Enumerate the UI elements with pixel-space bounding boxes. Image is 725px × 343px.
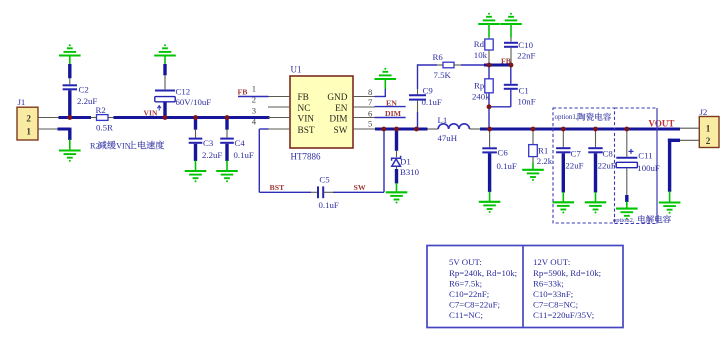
svg-text:5: 5 [368,119,372,129]
svg-text:VIN: VIN [298,114,315,124]
svg-text:DIM: DIM [329,114,347,124]
svg-text:U1: U1 [291,65,302,75]
wire J2 pin2 to ground [668,139,680,142]
ground under C8 [595,192,597,202]
svg-text:C11: C11 [638,150,652,160]
svg-text:0.1uF: 0.1uF [497,161,517,171]
svg-text:C8: C8 [603,148,614,158]
svg-text:1: 1 [26,127,31,137]
svg-text:0.1uF: 0.1uF [422,97,442,107]
dashed box option1 ceramic [553,108,615,223]
U1 pin 4 stub [268,128,290,130]
svg-text:DIM: DIM [385,109,402,118]
U1 pin 2 stub [268,106,290,108]
svg-text:0.5R: 0.5R [96,123,113,133]
svg-text:3: 3 [252,106,256,116]
svg-text:Rp: Rp [474,80,485,90]
ground under D1 [396,183,398,192]
capacitor C7 [562,129,564,147]
svg-text:C5: C5 [319,175,330,185]
ground under C7 [562,192,564,202]
capacitor C12 (electrolytic) [163,64,166,75]
J2 pin 1 stub [680,127,699,129]
svg-text:option1,: option1, [555,113,578,121]
svg-text:HT7886: HT7886 [291,152,321,162]
wire VIN bus [114,116,270,119]
capacitor C3 [194,118,197,130]
svg-text:R1: R1 [538,145,548,155]
ground under J2 [669,191,671,202]
svg-text:22uF: 22uF [565,161,583,171]
svg-text:option2,: option2, [613,217,635,224]
svg-text:2.2uF: 2.2uF [77,96,97,106]
junction C9-SW [414,127,419,132]
wire VIN bus left [59,116,92,119]
svg-text:22uF: 22uF [598,161,616,171]
svg-text:FB: FB [298,93,309,103]
ground under R1 [532,163,534,170]
inductor L1 [428,128,439,130]
junction C10-FB [509,63,514,68]
svg-text:FB: FB [238,87,248,96]
power symbol above C12 [154,48,176,55]
junction C4-VIN [225,115,230,120]
svg-text:BST: BST [270,183,286,192]
wire C5 to SW node [333,191,384,193]
J2 pin 2 stub [680,139,699,141]
junction R1-VOUT [531,127,536,132]
junction C8-VOUT [593,127,598,132]
junction C3-VIN [193,115,198,120]
svg-text:1: 1 [706,124,711,134]
U1 pin 7 stub [353,106,375,108]
connector J1 [17,107,38,140]
wire FB node [484,64,513,67]
svg-text:SW: SW [334,126,348,136]
svg-text:R6: R6 [433,52,444,62]
svg-text:0.1uF: 0.1uF [319,200,339,210]
wire J1 pin1 to ground [58,128,70,131]
ground under C3 [195,161,197,172]
svg-text:7: 7 [368,97,373,107]
power symbol above Rd [478,17,500,24]
svg-text:B310: B310 [400,167,420,177]
svg-text:C11=220uF/35V;: C11=220uF/35V; [533,310,594,320]
svg-text:C10: C10 [518,40,533,50]
svg-text:8: 8 [368,87,372,97]
svg-text:EN: EN [335,104,348,114]
wire VOUT bus [480,128,680,131]
svg-text:VIN: VIN [116,142,131,151]
U1 pin 3 stub [268,117,290,119]
J1 pin 1 stub [38,128,58,130]
svg-text:J1: J1 [18,97,26,107]
junction C7-VOUT [561,127,566,132]
resistor R1 [532,129,534,145]
svg-text:10k: 10k [474,50,488,60]
svg-text:D1: D1 [400,156,411,166]
capacitor C1 [489,106,511,108]
dashed box option2 electrolytic [615,108,658,224]
J1 pin 2 stub [38,117,60,119]
svg-text:2: 2 [706,136,711,146]
svg-text:C12: C12 [176,87,191,97]
svg-text:VIN: VIN [144,108,158,117]
junction Rp-C1 [487,104,492,109]
notes table [427,246,623,328]
svg-text:5V OUT:: 5V OUT: [449,257,482,267]
power symbol above C10 [500,17,522,24]
svg-text:GND: GND [327,93,347,103]
junction BST riser-SW [381,127,386,132]
capacitor C6 [489,129,491,147]
capacitor C2 [68,64,71,78]
capacitor C10 [510,38,512,42]
svg-text:0.1uF: 0.1uF [234,150,254,160]
svg-text:2: 2 [26,114,31,124]
svg-text:2.2uF: 2.2uF [202,150,222,160]
svg-text:R6=33k;: R6=33k; [533,278,564,288]
svg-text:R2: R2 [90,142,100,151]
resistor Rd [488,38,490,39]
svg-text:C10=33nF;: C10=33nF; [533,289,573,299]
svg-text:C4: C4 [235,138,246,148]
svg-text:2.2k: 2.2k [537,156,553,166]
svg-text:C11=NC;: C11=NC; [449,310,483,320]
power symbol above C2 [59,48,81,55]
capacitor C11 (electrolytic) [626,129,628,157]
resistor R2 [91,117,97,119]
diode D1 B310 [395,129,398,151]
capacitor C8 [595,129,597,147]
junction J1-C2-VIN [67,115,72,120]
ground under C6 [489,192,491,202]
U1 pin 5 stub [353,128,375,130]
svg-text:C6: C6 [498,148,509,158]
ground under C4 [226,161,228,172]
junction C6-VOUT [487,127,492,132]
svg-text:Rd: Rd [474,39,485,49]
wire Rp node to bus [488,107,490,128]
svg-text:R2: R2 [96,105,106,115]
U1 pin 6 stub [353,117,375,119]
svg-text:1: 1 [252,84,256,94]
op-amp U1 HT7886 body [290,76,353,148]
svg-text:C7=C8=NC;: C7=C8=NC; [533,300,578,310]
svg-text:VOUT: VOUT [649,119,675,129]
svg-text:C7: C7 [571,148,582,158]
wire SW bus [375,128,428,131]
svg-text:C3: C3 [203,138,214,148]
svg-text:C2: C2 [79,85,89,95]
junction C11-VOUT [624,127,629,132]
svg-text:EN: EN [386,98,397,107]
capacitor C4 [225,118,228,130]
svg-text:47uH: 47uH [438,133,458,143]
svg-text:C9: C9 [423,85,434,95]
svg-text:SW: SW [354,183,366,192]
svg-text:7.5K: 7.5K [434,70,452,80]
resistor R6 [418,64,438,66]
svg-text:Rp=590k, Rd=10k;: Rp=590k, Rd=10k; [533,268,601,278]
junction Rd-FB [487,63,492,68]
svg-text:60V/10uF: 60V/10uF [176,97,212,107]
svg-text:Rp=240k, Rd=10k;: Rp=240k, Rd=10k; [449,268,517,278]
svg-text:NC: NC [298,104,311,114]
junction C12-VIN [163,115,168,120]
svg-text:BST: BST [298,126,315,136]
resistor Rp [488,67,490,79]
svg-text:L1: L1 [438,115,448,125]
wire FB to pin1 [238,96,269,98]
junction D1-SW [394,127,399,132]
capacitor C9 [417,64,419,89]
svg-text:C1: C1 [519,86,529,96]
svg-text:C10=22nF;: C10=22nF; [449,289,489,299]
wire BST loop [259,128,268,130]
wire DIM from pin6 [375,117,406,119]
svg-text:R6=7.5k;: R6=7.5k; [449,278,482,288]
connector J2 [699,117,719,148]
svg-text:22nF: 22nF [517,51,535,61]
svg-text:10nF: 10nF [518,96,536,106]
ground under J1 [69,140,71,151]
ground under C11 [626,202,628,209]
U1 pin 8 stub [353,96,375,98]
power symbol above pin8 [375,72,397,79]
svg-text:J2: J2 [700,107,708,117]
svg-text:4: 4 [252,117,257,127]
wire EN from pin7 [375,106,406,108]
svg-text:C7=C8=22uF;: C7=C8=22uF; [449,300,500,310]
wire pin8 to power [375,96,386,98]
svg-text:240k: 240k [472,92,490,102]
svg-text:12V OUT:: 12V OUT: [533,257,570,267]
U1 pin 1 stub [268,96,290,98]
capacitor C5 [311,191,317,193]
